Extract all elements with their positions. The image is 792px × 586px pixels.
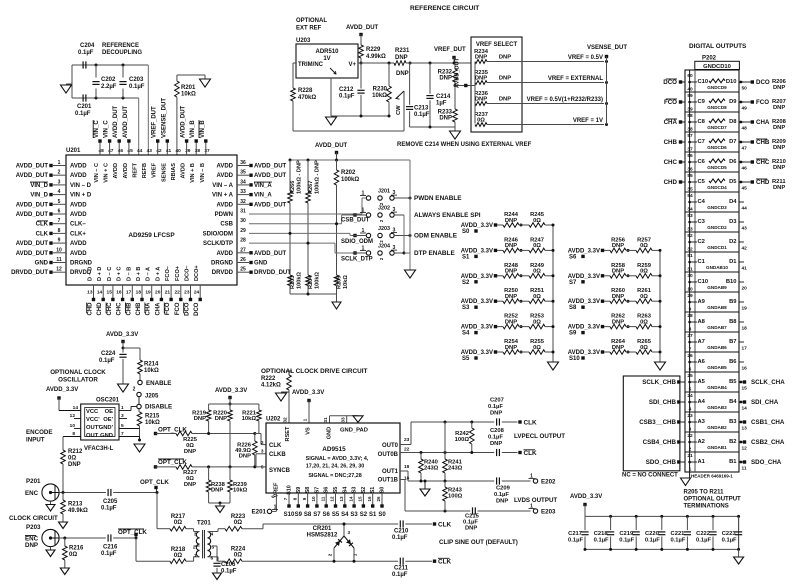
pin 7 CLK&#8211; U201	[53, 223, 66, 225]
svg-text:CW: CW	[396, 105, 402, 115]
pin 2 AVDD U201	[53, 174, 66, 176]
node CLK clip	[405, 523, 432, 525]
svg-text:CLOCK CIRCUIT: CLOCK CIRCUIT	[9, 515, 58, 522]
svg-text:19: 19	[145, 290, 151, 296]
svg-text:CHA: CHA	[664, 119, 678, 126]
svg-text:B4: B4	[729, 399, 737, 405]
svg-text:OPTIONAL: OPTIONAL	[296, 18, 327, 24]
svg-text:33: 33	[341, 417, 347, 423]
svg-text:AVDD_DUT: AVDD_DUT	[315, 143, 348, 149]
svg-text:46: 46	[742, 166, 748, 172]
svg-text:DNP: DNP	[439, 116, 452, 122]
svg-text:10kΩ: 10kΩ	[181, 92, 196, 98]
svg-text:16: 16	[116, 290, 122, 296]
svg-text:D + B: D + B	[136, 267, 142, 281]
svg-text:12: 12	[330, 496, 335, 502]
svg-text:AVDD: AVDD	[216, 202, 233, 208]
svg-text:24: 24	[687, 393, 693, 399]
svg-text:48: 48	[742, 126, 748, 132]
svg-text:RBIAS: RBIAS	[171, 163, 177, 181]
svg-text:AD9515: AD9515	[322, 446, 346, 453]
resistor R207 termination FCO	[740, 101, 743, 104]
svg-text:GNDAB4: GNDAB4	[707, 385, 727, 390]
svg-text:57: 57	[687, 133, 693, 139]
resistor R226	[254, 434, 256, 442]
svg-text:VIN_D: VIN_D	[30, 183, 48, 189]
svg-text:0Ω: 0Ω	[640, 319, 648, 325]
svg-text:CHA: CHA	[146, 302, 152, 316]
svg-text:PDWN: PDWN	[215, 212, 233, 218]
svg-text:AVDD: AVDD	[70, 212, 87, 218]
pin 10 AVDD U201	[53, 252, 66, 254]
svg-text:SCLK_CHA: SCLK_CHA	[751, 379, 785, 386]
svg-text:C6: C6	[698, 159, 706, 165]
svg-text:SDI_CHA: SDI_CHA	[751, 399, 779, 406]
connector SPI box	[623, 376, 680, 471]
svg-text:C207: C207	[490, 398, 504, 404]
svg-text:CHA: CHA	[155, 302, 161, 316]
node SDI_CHA spi right	[740, 401, 743, 404]
svg-text:U202: U202	[266, 417, 281, 423]
svg-text:13: 13	[339, 496, 344, 502]
svg-text:VIN_D: VIN_D	[30, 193, 48, 199]
svg-text:0.1µF: 0.1µF	[414, 112, 430, 118]
svg-text:C2: C2	[698, 239, 705, 245]
svg-text:R201: R201	[181, 85, 196, 91]
capacitor C216	[107, 534, 109, 541]
svg-text:D – C: D – C	[107, 267, 113, 281]
svg-text:S5: S5	[462, 356, 470, 362]
svg-text:CSB1_CHA: CSB1_CHA	[751, 419, 785, 426]
node V+	[360, 62, 363, 65]
wire OPT_CLKB down	[135, 538, 137, 561]
svg-text:C221: C221	[671, 531, 686, 537]
svg-text:R222: R222	[261, 376, 276, 382]
svg-text:243Ω: 243Ω	[424, 466, 439, 472]
header row C7/D7 P202	[685, 131, 739, 133]
svg-text:32: 32	[283, 417, 289, 423]
svg-text:VIN + D: VIN + D	[70, 193, 92, 199]
node CSB1_CHA spi right	[740, 421, 743, 424]
resistor R216	[64, 538, 66, 546]
svg-text:ADR510: ADR510	[315, 49, 339, 55]
svg-text:OE: OE	[105, 409, 114, 415]
svg-text:48: 48	[99, 148, 105, 154]
svg-text:DCO: DCO	[194, 302, 200, 316]
svg-text:C208: C208	[490, 428, 505, 434]
svg-text:AVDD_DUT: AVDD_DUT	[113, 105, 119, 138]
svg-text:0Ω: 0Ω	[640, 345, 648, 351]
wire REFT to rail	[138, 98, 140, 155]
svg-text:DCO–: DCO–	[185, 265, 191, 281]
svg-text:0Ω: 0Ω	[640, 243, 648, 249]
svg-text:AVDD_DUT: AVDD_DUT	[16, 202, 49, 208]
svg-text:S10: S10	[569, 356, 580, 362]
svg-text:14: 14	[97, 290, 103, 296]
svg-text:VIN – A: VIN – A	[212, 183, 233, 189]
svg-text:S9: S9	[569, 331, 577, 337]
svg-text:59: 59	[687, 93, 693, 99]
svg-text:RSET: RSET	[285, 426, 291, 442]
svg-text:C204: C204	[80, 43, 95, 49]
svg-text:2: 2	[193, 545, 196, 551]
op-amp U202 AD9515 body	[266, 423, 400, 493]
trimpot R230	[388, 62, 391, 65]
svg-text:R231: R231	[395, 48, 410, 54]
svg-text:DCO+: DCO+	[194, 265, 200, 281]
resistor R221	[258, 404, 260, 410]
svg-text:AVDD_DUT: AVDD_DUT	[254, 251, 287, 257]
capacitor C222	[712, 515, 715, 518]
capacitor C214	[429, 62, 432, 65]
svg-text:GNDCD8: GNDCD8	[707, 105, 727, 110]
svg-text:A7: A7	[698, 339, 705, 345]
svg-text:44: 44	[137, 148, 143, 154]
svg-text:A8: A8	[698, 319, 706, 325]
svg-text:CHC: CHC	[756, 159, 770, 166]
svg-text:0Ω: 0Ω	[533, 294, 541, 300]
wire SDIO	[249, 232, 350, 234]
svg-text:SIGNAL = AVDD_3.3V; 4,: SIGNAL = AVDD_3.3V; 4,	[306, 456, 369, 462]
capacitor C219	[635, 515, 638, 518]
svg-text:GNDAB3: GNDAB3	[707, 405, 727, 410]
svg-text:45: 45	[742, 186, 748, 192]
svg-text:SDIO/ODM: SDIO/ODM	[203, 231, 233, 237]
svg-text:AVDD: AVDD	[70, 241, 87, 247]
capacitor C213	[409, 63, 411, 105]
svg-text:REFERENCE: REFERENCE	[102, 43, 139, 49]
svg-text:GNDCD2: GNDCD2	[707, 225, 727, 230]
svg-text:GNDAB10: GNDAB10	[706, 265, 728, 270]
wire jumper top rail	[290, 159, 410, 161]
ground C206	[213, 573, 222, 580]
capacitor C203	[122, 64, 125, 67]
svg-text:OUT1: OUT1	[382, 469, 399, 475]
svg-text:31: 31	[240, 209, 246, 215]
svg-text:GND: GND	[35, 261, 49, 267]
svg-text:23: 23	[404, 437, 410, 443]
svg-text:C9: C9	[698, 99, 706, 105]
svg-text:CSB_DUT: CSB_DUT	[341, 218, 370, 224]
svg-text:100Ω: 100Ω	[455, 437, 470, 443]
pin 5 AVDD U201	[53, 203, 66, 205]
svg-text:VIN_B: VIN_B	[200, 120, 206, 138]
svg-text:GND: GND	[327, 427, 333, 439]
resistor R266	[289, 160, 291, 191]
svg-text:FCO: FCO	[175, 302, 181, 315]
svg-text:GNDCD5: GNDCD5	[707, 165, 727, 170]
svg-text:6: 6	[211, 556, 214, 562]
svg-text:17,20, 21, 24, 26, 29, 30: 17,20, 21, 24, 26, 29, 30	[306, 463, 364, 469]
svg-text:41: 41	[742, 266, 748, 272]
capacitor C201	[82, 94, 84, 101]
capacitor C215	[472, 507, 474, 514]
svg-text:1V: 1V	[323, 56, 330, 62]
svg-text:D10: D10	[726, 79, 737, 85]
svg-text:DNP: DNP	[215, 416, 227, 422]
svg-text:DNP: DNP	[773, 85, 785, 91]
svg-text:SDI_CHB: SDI_CHB	[649, 399, 677, 406]
svg-text:43: 43	[147, 148, 153, 154]
svg-text:29: 29	[240, 228, 246, 234]
svg-text:56: 56	[687, 153, 693, 159]
svg-text:51: 51	[687, 253, 693, 259]
ground P203	[50, 547, 52, 550]
svg-text:S8: S8	[304, 512, 312, 518]
svg-text:S6: S6	[569, 254, 577, 260]
node SDO_CHA spi right	[740, 461, 743, 464]
svg-text:54: 54	[687, 193, 693, 199]
svg-text:AVDD: AVDD	[70, 173, 87, 179]
svg-text:14: 14	[348, 496, 353, 502]
capacitor C208	[496, 449, 498, 456]
svg-text:CHB: CHB	[126, 302, 132, 316]
svg-text:VIN – B: VIN – B	[200, 163, 206, 183]
svg-text:U203: U203	[296, 38, 311, 44]
svg-text:SCLK/DTP: SCLK/DTP	[203, 241, 233, 247]
resistor R241	[444, 422, 446, 459]
svg-text:DNP: DNP	[773, 185, 785, 191]
svg-text:DNP: DNP	[773, 145, 785, 151]
resistor R206 termination DCO	[740, 81, 743, 84]
svg-text:0Ω: 0Ω	[174, 553, 182, 559]
svg-text:GNDAB5: GNDAB5	[707, 365, 727, 370]
ground R215	[138, 439, 141, 442]
wire V+ to R231	[361, 62, 394, 64]
svg-text:S2: S2	[361, 487, 367, 494]
svg-text:D + C: D + C	[117, 267, 123, 281]
svg-text:41: 41	[166, 148, 172, 154]
svg-text:0.1µF: 0.1µF	[99, 358, 115, 364]
svg-text:C211: C211	[394, 566, 409, 572]
svg-text:4.12kΩ: 4.12kΩ	[261, 383, 281, 389]
resistor R211 termination CHD	[740, 181, 743, 184]
svg-text:S3: S3	[350, 512, 358, 518]
svg-text:47: 47	[108, 148, 114, 154]
svg-text:0.1µF: 0.1µF	[101, 506, 117, 512]
svg-text:AVDD_DUT: AVDD_DUT	[346, 25, 379, 31]
svg-text:22: 22	[687, 433, 693, 439]
svg-text:CHC: CHC	[117, 302, 123, 316]
svg-text:1: 1	[303, 418, 309, 421]
svg-text:5: 5	[261, 465, 264, 471]
svg-text:OSC201: OSC201	[96, 398, 120, 404]
ground U202 gndpad	[353, 416, 363, 423]
svg-text:VCC': VCC'	[86, 417, 100, 423]
svg-text:18: 18	[136, 290, 142, 296]
header row C6/D6 P202	[685, 151, 739, 153]
svg-text:D6: D6	[729, 159, 737, 165]
header row A6/B6 P202	[685, 351, 739, 353]
wire T201 sec top	[213, 531, 218, 533]
svg-text:GNDCD9: GNDCD9	[707, 85, 727, 90]
header row C5/D5 P202	[685, 171, 739, 173]
wire header ground bus	[689, 70, 691, 479]
svg-text:D7: D7	[729, 139, 736, 145]
svg-text:S8: S8	[569, 305, 577, 311]
svg-text:REFERENCE CIRCUIT: REFERENCE CIRCUIT	[410, 5, 479, 12]
svg-text:C224: C224	[101, 351, 116, 357]
oscillator OSC201 VFAC3H-L body	[81, 404, 119, 440]
svg-text:CLK: CLK	[36, 222, 49, 228]
svg-text:R205: R205	[337, 276, 343, 289]
svg-text:GND': GND'	[99, 425, 114, 431]
svg-text:CHB: CHB	[136, 302, 142, 316]
svg-text:DNP: DNP	[184, 482, 196, 488]
svg-text:6: 6	[58, 209, 61, 215]
svg-text:SDO_CHA: SDO_CHA	[751, 459, 782, 466]
svg-text:17: 17	[126, 290, 132, 296]
svg-text:D1: D1	[729, 259, 737, 265]
header row A2/B2 P202	[685, 431, 739, 433]
pin 9 AVDD U201	[53, 242, 66, 244]
svg-text:8: 8	[58, 228, 61, 234]
svg-text:2: 2	[328, 553, 333, 556]
svg-text:E201: E201	[252, 509, 267, 516]
svg-text:LVPECL OUTPUT: LVPECL OUTPUT	[514, 433, 565, 440]
ground S bus right	[655, 362, 666, 370]
svg-text:D – A: D – A	[146, 267, 152, 281]
svg-text:TRIM/NC: TRIM/NC	[298, 62, 324, 68]
svg-text:S3: S3	[352, 487, 358, 494]
svg-text:0.1µF: 0.1µF	[129, 84, 145, 90]
svg-text:VIN_C: VIN_C	[104, 120, 110, 138]
svg-text:AVDD: AVDD	[181, 163, 187, 178]
testpoint E202	[502, 480, 531, 482]
svg-text:AVDD_DUT: AVDD_DUT	[181, 105, 187, 138]
svg-text:3: 3	[58, 179, 61, 185]
svg-text:S0: S0	[380, 487, 386, 494]
svg-text:B3: B3	[729, 419, 737, 425]
ground header	[681, 478, 691, 486]
resistor R239	[229, 467, 231, 480]
svg-text:0.1µF: 0.1µF	[488, 404, 503, 410]
resistor R240	[420, 453, 422, 460]
svg-text:S9: S9	[295, 512, 303, 518]
svg-text:43: 43	[742, 226, 748, 232]
svg-text:S1: S1	[369, 512, 377, 518]
svg-text:DNP: DNP	[194, 416, 206, 422]
svg-text:2: 2	[58, 170, 61, 176]
svg-text:C202: C202	[101, 77, 116, 83]
wire REFB to rail	[147, 65, 149, 155]
svg-text:CHC: CHC	[664, 159, 678, 166]
svg-text:VREF = EXTERNAL: VREF = EXTERNAL	[548, 76, 604, 82]
svg-text:AVDD_3.3V: AVDD_3.3V	[215, 388, 247, 394]
svg-text:CSB3__CHB: CSB3__CHB	[639, 419, 676, 426]
svg-text:52: 52	[687, 233, 693, 239]
regulator U203 ADR510	[296, 44, 358, 78]
svg-text:SDIO_ODM: SDIO_ODM	[341, 239, 373, 245]
svg-text:CSB4_CHB: CSB4_CHB	[643, 439, 677, 446]
svg-text:19: 19	[404, 464, 410, 470]
svg-text:DRVDD: DRVDD	[212, 270, 234, 276]
svg-text:GNDAB9: GNDAB9	[707, 285, 727, 290]
capacitor C206	[213, 545, 217, 547]
pin 12 DRVDD U201	[53, 271, 66, 273]
svg-text:DRGND: DRGND	[211, 261, 234, 267]
svg-text:0.1µF: 0.1µF	[221, 569, 237, 575]
svg-text:DRVDD_DUT: DRVDD_DUT	[254, 270, 291, 276]
wire C216 to OPT_CLKB	[113, 537, 136, 539]
svg-text:R205 TO R211: R205 TO R211	[684, 490, 725, 496]
svg-text:DNP: DNP	[395, 55, 408, 61]
svg-text:VREF_DUT: VREF_DUT	[434, 47, 466, 53]
svg-text:E203: E203	[541, 509, 556, 516]
svg-text:D + D: D + D	[97, 267, 103, 281]
wire RSET stub	[288, 404, 290, 423]
svg-text:DNP: DNP	[239, 454, 251, 460]
resistor R203	[289, 242, 291, 275]
svg-text:0Ω: 0Ω	[533, 345, 541, 351]
svg-text:S4: S4	[341, 512, 349, 518]
svg-text:OPTIONAL CLOCK DRIVE CIRCUIT: OPTIONAL CLOCK DRIVE CIRCUIT	[261, 368, 367, 375]
svg-text:J203: J203	[378, 226, 390, 232]
svg-text:AVDD_DUT: AVDD_DUT	[16, 212, 49, 218]
svg-text:S8: S8	[305, 487, 311, 494]
wire R231 to table	[409, 62, 412, 65]
svg-text:A1: A1	[698, 459, 706, 465]
svg-text:0.1µF: 0.1µF	[339, 94, 355, 100]
header row C10/B10 P202	[685, 271, 739, 273]
svg-text:GNDAB7: GNDAB7	[707, 325, 727, 330]
wire GND pins U202	[329, 416, 331, 423]
svg-text:0Ω: 0Ω	[533, 269, 541, 275]
svg-text:C210: C210	[394, 529, 409, 535]
svg-text:GNDAB8: GNDAB8	[707, 305, 727, 310]
svg-text:ALWAYS ENABLE SPI: ALWAYS ENABLE SPI	[414, 212, 481, 219]
svg-text:CHA: CHA	[756, 119, 770, 126]
svg-text:V+: V+	[348, 62, 356, 68]
resistor R224	[225, 559, 242, 564]
svg-text:S6: S6	[324, 487, 330, 494]
svg-text:DCO: DCO	[663, 79, 677, 86]
svg-text:DNP: DNP	[499, 55, 511, 61]
svg-text:30: 30	[240, 218, 246, 224]
header row C2/D2 P202	[685, 231, 739, 233]
svg-text:ENC: ENC	[25, 490, 39, 497]
header row A1/B1 P202	[685, 451, 739, 453]
svg-text:S1: S1	[370, 487, 376, 494]
wire OUT1	[400, 470, 408, 472]
svg-text:CSB: CSB	[220, 222, 233, 228]
svg-text:0Ω: 0Ω	[533, 218, 541, 224]
svg-text:DNP: DNP	[25, 542, 38, 549]
svg-text:OUT1B: OUT1B	[378, 478, 399, 484]
svg-text:23: 23	[687, 413, 693, 419]
svg-text:55: 55	[687, 173, 693, 179]
wire clip top rail	[340, 523, 398, 525]
svg-text:100kΩ - DNP: 100kΩ - DNP	[297, 160, 303, 194]
resistor R242	[470, 428, 475, 444]
wire S bus right	[659, 250, 661, 362]
svg-text:GNDAB2: GNDAB2	[707, 425, 727, 430]
svg-text:9: 9	[58, 238, 61, 244]
svg-text:0Ω: 0Ω	[640, 269, 648, 275]
svg-text:C4: C4	[698, 199, 706, 205]
svg-text:31: 31	[323, 417, 329, 423]
svg-text:P203: P203	[26, 524, 41, 531]
svg-text:S2: S2	[360, 512, 368, 518]
svg-text:AVDD_3.3V: AVDD_3.3V	[46, 387, 78, 393]
svg-text:13: 13	[87, 290, 93, 296]
svg-text:CHB: CHB	[756, 139, 770, 146]
svg-text:FCO+: FCO+	[175, 265, 181, 281]
svg-text:7: 7	[58, 218, 61, 224]
header row C1/D1 P202	[685, 251, 739, 253]
svg-text:B6: B6	[729, 359, 737, 365]
svg-text:AVDD_3.3V: AVDD_3.3V	[106, 332, 138, 338]
